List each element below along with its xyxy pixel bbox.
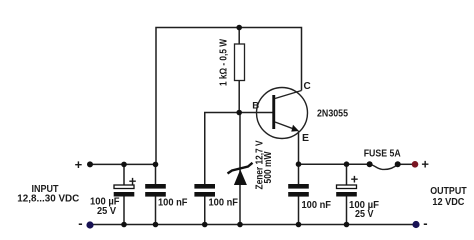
svg-text:12,8...30 VDC: 12,8...30 VDC (17, 194, 79, 205)
transistor Q1 collector lead (275, 91, 302, 99)
node junction ground / C3 (202, 222, 208, 228)
transistor Q1 base bar (272, 95, 275, 129)
svg-text:2N3055: 2N3055 (317, 108, 348, 120)
svg-text:E: E (302, 132, 309, 144)
capacitor C5 bottom plate (336, 192, 357, 197)
capacitor C2 top plate (145, 184, 166, 189)
capacitor C3 top plate (194, 184, 215, 189)
input plus terminal (87, 161, 93, 167)
output minus terminal (412, 221, 419, 228)
svg-text:+: + (421, 157, 429, 172)
svg-text:1 kΩ - 0,5 W: 1 kΩ - 0,5 W (219, 39, 230, 86)
zener diode D1 anode triangle (234, 170, 247, 186)
svg-text:+: + (351, 171, 359, 186)
zener diode D1 cathode bar (228, 163, 253, 174)
svg-text:25 V: 25 V (355, 208, 374, 220)
wire C5 branch (346, 164, 348, 185)
capacitor C4 top plate (288, 184, 309, 189)
wire output rail (299, 163, 370, 165)
wire input plus rail (90, 163, 156, 165)
node junction top rail / resistor (236, 25, 242, 31)
svg-text:FUSE 5A: FUSE 5A (364, 147, 401, 159)
wire C4 branch (298, 164, 300, 184)
wire bottom ground rail (90, 224, 416, 226)
node junction input rail / left vertical (153, 162, 159, 168)
fuse F1 right clip dot (395, 161, 401, 167)
wire C2 to ground (155, 197, 157, 225)
node junction ground / C4 (296, 222, 302, 228)
svg-text:+: + (129, 173, 137, 188)
wire resistor top lead (238, 28, 240, 45)
svg-text:100 nF: 100 nF (209, 197, 239, 209)
wire fuse to output terminal (398, 163, 413, 165)
svg-text:OUTPUT: OUTPUT (430, 186, 467, 197)
svg-text:+: + (75, 157, 83, 172)
wire top rail (156, 28, 302, 165)
capacitor C1 bottom plate (114, 192, 135, 197)
wire C2 branch lower (155, 164, 157, 184)
wire emitter vertical (298, 131, 300, 164)
svg-text:C: C (304, 81, 311, 92)
svg-text:500 mW: 500 mW (263, 151, 274, 183)
node junction base / resistor / zener (236, 110, 242, 116)
capacitor C2 bottom plate (145, 192, 166, 197)
capacitor C4 bottom plate (288, 192, 309, 197)
capacitor C3 bottom plate (194, 192, 215, 197)
node junction ground / zener (237, 222, 243, 228)
wire C5 to ground (346, 197, 348, 225)
fuse F1 left clip dot (367, 161, 373, 167)
input minus terminal (86, 221, 93, 228)
svg-text:-: - (78, 216, 82, 231)
wire C1 branch (123, 164, 125, 185)
node junction input rail / C1 (121, 162, 127, 168)
svg-text:100 nF: 100 nF (158, 197, 188, 209)
capacitor C1 top plate (positive, hollow) (114, 185, 134, 189)
wire C3 to ground (204, 197, 206, 225)
wire C1 to ground (123, 197, 125, 225)
node junction output rail / C5 (344, 161, 350, 167)
svg-text:25 V: 25 V (97, 205, 116, 217)
wire resistor bottom lead (238, 81, 240, 113)
node junction ground / C1 (121, 222, 127, 228)
capacitor C5 top plate (positive, hollow) (337, 185, 357, 189)
wire base (205, 113, 273, 185)
wire C4 to ground (298, 197, 300, 225)
wire zener branch (239, 113, 241, 225)
node junction ground / C5 (344, 222, 350, 228)
transistor Q1 emitter lead (275, 122, 296, 130)
transistor Q1 body circle (257, 88, 308, 139)
svg-text:12 VDC: 12 VDC (432, 197, 464, 208)
svg-text:B: B (252, 101, 259, 112)
node junction emitter / output rail (296, 161, 302, 167)
resistor R1 body (235, 44, 245, 81)
output plus terminal (412, 161, 419, 168)
node junction ground / C2 (153, 222, 159, 228)
svg-text:-: - (423, 216, 427, 231)
transistor Q1 emitter arrow (291, 125, 299, 132)
svg-text:100 nF: 100 nF (302, 199, 332, 211)
fuse F1 wire element (370, 164, 398, 169)
